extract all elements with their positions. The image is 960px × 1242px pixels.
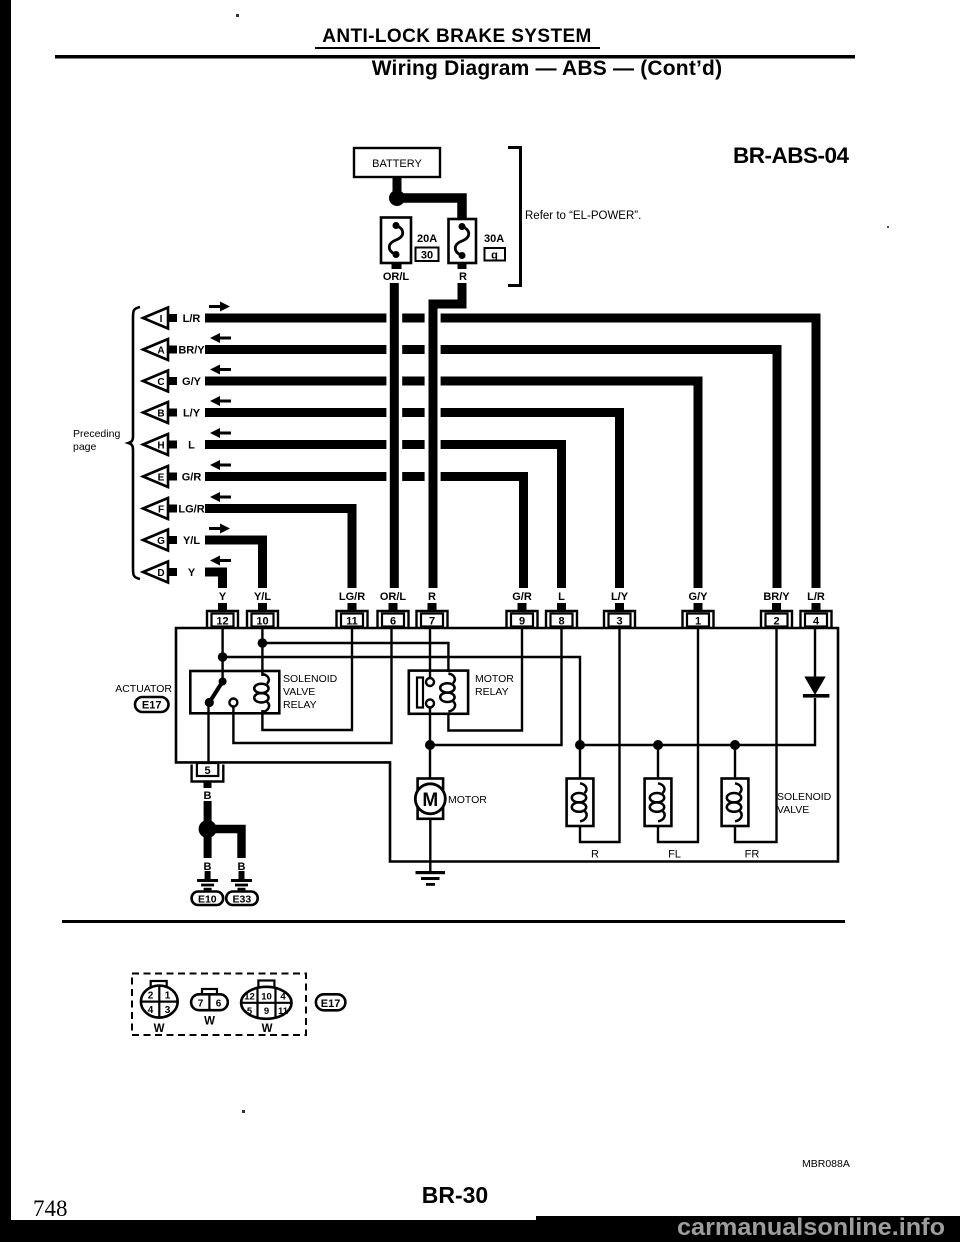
motor relay box bbox=[409, 671, 468, 714]
svg-text:Refer to “EL-POWER”.: Refer to “EL-POWER”. bbox=[525, 210, 641, 222]
wire G/Y bbox=[205, 381, 698, 588]
wire FR solenoid coil feed bbox=[734, 745, 736, 779]
connector triangle C (preceding page), wire G/Y bbox=[143, 371, 202, 392]
svg-text:G/R: G/R bbox=[182, 472, 202, 484]
svg-text:G: G bbox=[157, 536, 165, 547]
connector terminal 3 bbox=[604, 603, 635, 628]
svg-text:Y: Y bbox=[188, 567, 196, 579]
SVR switch bbox=[205, 678, 227, 708]
wire motor node to connector 8 bbox=[430, 627, 562, 745]
connector terminal 11 bbox=[337, 603, 368, 628]
svg-text:11: 11 bbox=[278, 1006, 289, 1017]
svg-text:E33: E33 bbox=[233, 894, 252, 906]
connector triangle A (preceding page), wire BR/Y bbox=[143, 339, 205, 360]
svg-text:g: g bbox=[491, 250, 498, 262]
E17 oval legend bbox=[316, 994, 346, 1010]
wire node 10-branch to motor relay coil bbox=[262, 643, 448, 672]
svg-text:ACTUATOR: ACTUATOR bbox=[115, 683, 172, 695]
svg-text:5: 5 bbox=[247, 1006, 253, 1017]
svg-text:7: 7 bbox=[198, 999, 204, 1010]
svg-text:VALVE: VALVE bbox=[777, 804, 809, 816]
connector triangle G (preceding page), wire Y/L bbox=[143, 530, 200, 551]
svg-text:A: A bbox=[157, 346, 164, 357]
svg-text:7: 7 bbox=[429, 616, 435, 628]
motor relay coil bbox=[440, 674, 455, 712]
wire motor relay coil bottom to connector 9 bbox=[448, 627, 522, 731]
svg-text:MBR088A: MBR088A bbox=[802, 1158, 850, 1170]
wire B down to E10 bbox=[204, 829, 212, 858]
svg-text:R: R bbox=[591, 849, 599, 861]
svg-text:D: D bbox=[157, 568, 164, 579]
svg-text:E: E bbox=[158, 473, 165, 484]
svg-text:OR/L: OR/L bbox=[383, 271, 410, 283]
svg-text:9: 9 bbox=[519, 616, 525, 628]
wire motor relay contact to motor, junction bbox=[429, 707, 431, 779]
svg-text:Preceding: Preceding bbox=[73, 428, 120, 440]
svg-text:3: 3 bbox=[165, 1005, 171, 1016]
svg-text:6: 6 bbox=[390, 616, 396, 628]
connector face E17-A (pins 2,1,4,3) bbox=[141, 981, 178, 1018]
fuse stubs bbox=[392, 263, 402, 269]
arrow G/Y bbox=[210, 365, 231, 375]
svg-text:page: page bbox=[73, 441, 97, 453]
wire G/R bbox=[205, 477, 524, 589]
svg-text:FL: FL bbox=[668, 849, 681, 861]
wire 7 to motor relay contact bbox=[429, 627, 431, 678]
svg-text:VALVE: VALVE bbox=[283, 686, 315, 698]
wire L/R bbox=[205, 318, 816, 588]
scan specks bbox=[236, 14, 239, 17]
connector terminal 9 bbox=[507, 603, 538, 628]
wire L bbox=[205, 445, 562, 589]
svg-text:Y: Y bbox=[219, 591, 227, 603]
wire B down from 5 bbox=[204, 801, 212, 822]
wire motor to ground bbox=[429, 819, 431, 871]
svg-text:SOLENOID: SOLENOID bbox=[777, 791, 832, 803]
arrow Y/L bbox=[209, 524, 230, 534]
connector triangle F (preceding page), wire LG/R bbox=[143, 498, 205, 519]
svg-text:1: 1 bbox=[165, 991, 171, 1002]
svg-text:B: B bbox=[157, 409, 164, 420]
svg-text:G/Y: G/Y bbox=[182, 376, 202, 388]
svg-text:I: I bbox=[160, 314, 163, 325]
svg-text:W: W bbox=[154, 1023, 165, 1035]
svg-text:RELAY: RELAY bbox=[283, 699, 317, 711]
legend dashed box bbox=[132, 974, 306, 1036]
connector terminal 12 bbox=[207, 603, 238, 628]
svg-text:BATTERY: BATTERY bbox=[372, 158, 422, 170]
ground under motor bbox=[416, 871, 446, 886]
connector triangle H (preceding page), wire L bbox=[143, 434, 195, 455]
svg-text:L: L bbox=[188, 440, 195, 452]
svg-text:30A: 30A bbox=[484, 233, 504, 245]
svg-text:B: B bbox=[204, 790, 212, 802]
svg-text:6: 6 bbox=[216, 999, 222, 1010]
svg-text:E17: E17 bbox=[142, 700, 162, 712]
wire Y bbox=[205, 572, 223, 588]
E17 oval bbox=[135, 697, 169, 712]
svg-text:9: 9 bbox=[264, 1006, 269, 1017]
wire battery to fuse2 bbox=[397, 198, 462, 219]
svg-text:30: 30 bbox=[421, 250, 433, 262]
svg-text:RELAY: RELAY bbox=[475, 686, 509, 698]
connector face E17-C (pins 12,10,4,5,9,11) bbox=[241, 981, 291, 1019]
svg-text:748: 748 bbox=[33, 1196, 68, 1221]
wire Y/L bbox=[205, 540, 263, 588]
connector terminal 2 bbox=[761, 603, 792, 628]
preceding page brace bbox=[129, 307, 141, 579]
wire L/Y bbox=[205, 413, 620, 589]
wire SVR coil bottom to connector 11 bbox=[262, 627, 352, 730]
svg-text:12: 12 bbox=[244, 992, 255, 1003]
svg-text:12: 12 bbox=[216, 616, 228, 628]
solenoid valve relay box bbox=[190, 671, 279, 713]
label 30 box bbox=[416, 248, 439, 262]
svg-text:Y/L: Y/L bbox=[183, 535, 200, 547]
svg-text:4: 4 bbox=[813, 616, 820, 628]
arrow L/Y bbox=[210, 396, 231, 406]
connector terminal 6 bbox=[378, 603, 409, 628]
motor relay contact bar bbox=[417, 678, 423, 708]
arrow LG/R bbox=[210, 492, 231, 502]
svg-text:10: 10 bbox=[256, 616, 268, 628]
connector terminal 4 bbox=[801, 603, 832, 628]
connector terminal 10 bbox=[247, 603, 278, 628]
svg-text:10: 10 bbox=[261, 992, 272, 1003]
svg-text:BR-ABS-04: BR-ABS-04 bbox=[733, 143, 850, 168]
connector face E17-B (pins 7,6) bbox=[191, 989, 228, 1010]
wire R coil return to connector 3 bbox=[580, 627, 620, 842]
wire R vertical from fuse with jog bbox=[433, 283, 462, 588]
svg-text:8: 8 bbox=[558, 616, 564, 628]
wire LG/R bbox=[205, 509, 352, 589]
label g box bbox=[485, 248, 506, 261]
thick header rule bbox=[55, 55, 855, 59]
svg-text:BR/Y: BR/Y bbox=[178, 345, 205, 357]
solenoid coil R bbox=[567, 779, 594, 827]
svg-text:G/Y: G/Y bbox=[689, 591, 709, 603]
svg-text:L/R: L/R bbox=[183, 313, 201, 325]
svg-text:BR/Y: BR/Y bbox=[763, 591, 790, 603]
wire diode from connector 4 bbox=[814, 627, 816, 678]
wire SVR switch to connector 5 bbox=[207, 703, 209, 763]
wire 10 to relay coil bbox=[261, 627, 263, 676]
arrow Y bbox=[210, 556, 231, 566]
section separator rule bbox=[62, 920, 845, 923]
wire node 12-branch to solenoid feed bbox=[223, 657, 580, 745]
wire OR/L vertical from fuse bbox=[390, 283, 399, 588]
crossover gaps at OR/L and R verticals bbox=[386, 313, 402, 323]
svg-text:MOTOR: MOTOR bbox=[448, 794, 487, 806]
svg-text:L/Y: L/Y bbox=[611, 591, 629, 603]
svg-text:2: 2 bbox=[773, 616, 779, 628]
svg-text:E17: E17 bbox=[321, 998, 341, 1010]
svg-text:FR: FR bbox=[745, 849, 760, 861]
wire SVR fixed contact to connector 6 bbox=[233, 627, 391, 743]
battery wire bbox=[393, 177, 402, 197]
connector terminal 5 bbox=[192, 763, 224, 788]
arrow L bbox=[210, 428, 231, 438]
connector terminal 1 bbox=[683, 603, 714, 628]
diode CR (to L/R) bbox=[803, 677, 830, 698]
connector triangle D (preceding page), wire Y bbox=[143, 562, 196, 583]
svg-text:carmanualsonline.info: carmanualsonline.info bbox=[677, 1214, 945, 1241]
connector terminal 7 bbox=[417, 603, 448, 628]
svg-text:4: 4 bbox=[280, 992, 286, 1003]
svg-text:SOLENOID: SOLENOID bbox=[283, 673, 338, 685]
connector triangle E (preceding page), wire G/R bbox=[143, 466, 201, 487]
wire 12 to relay switch bbox=[221, 627, 223, 681]
junction B bbox=[199, 820, 217, 838]
svg-text:BR-30: BR-30 bbox=[422, 1182, 488, 1208]
solenoid coil FR bbox=[722, 779, 749, 827]
svg-text:LG/R: LG/R bbox=[178, 504, 204, 516]
svg-text:11: 11 bbox=[346, 616, 358, 628]
actuator big box outline bbox=[176, 628, 838, 862]
wire FR coil return to connector 2 bbox=[735, 627, 777, 842]
fuse 30A box bbox=[449, 219, 477, 263]
svg-text:L/R: L/R bbox=[807, 591, 825, 603]
svg-text:R: R bbox=[459, 271, 467, 283]
junction dot battery bbox=[389, 190, 405, 206]
bottom black scan bar bbox=[0, 1220, 960, 1242]
svg-text:Wiring Diagram — ABS — (Cont’d: Wiring Diagram — ABS — (Cont’d) bbox=[372, 57, 723, 80]
svg-text:L: L bbox=[558, 591, 565, 603]
svg-text:MOTOR: MOTOR bbox=[475, 673, 514, 685]
ground E33 bbox=[231, 871, 252, 890]
arrow G/R bbox=[210, 460, 231, 470]
svg-text:R: R bbox=[428, 591, 436, 603]
wire solenoid feed bus bbox=[580, 698, 815, 745]
fuse 20A box bbox=[381, 218, 411, 264]
svg-text:Y/L: Y/L bbox=[254, 591, 271, 603]
motor M1 bbox=[415, 779, 445, 819]
svg-text:E10: E10 bbox=[198, 894, 217, 906]
svg-text:F: F bbox=[158, 505, 164, 516]
svg-text:OR/L: OR/L bbox=[380, 591, 407, 603]
solenoid coil FL bbox=[645, 779, 672, 827]
svg-text:3: 3 bbox=[616, 616, 622, 628]
ground E10 bbox=[197, 871, 218, 890]
wire BR/Y bbox=[205, 350, 777, 589]
left black scan bar bbox=[0, 0, 11, 1242]
svg-text:M: M bbox=[422, 790, 438, 811]
connector triangle I (preceding page), wire L/R bbox=[143, 308, 200, 329]
wire FL solenoid coil feed bbox=[657, 745, 659, 779]
svg-text:W: W bbox=[204, 1016, 215, 1028]
refer bracket bbox=[508, 148, 521, 286]
svg-text:H: H bbox=[157, 441, 164, 452]
svg-text:C: C bbox=[157, 377, 164, 388]
svg-text:ANTI-LOCK BRAKE SYSTEM: ANTI-LOCK BRAKE SYSTEM bbox=[322, 26, 592, 47]
SVR fixed contact bbox=[229, 699, 237, 707]
connector terminal 8 bbox=[546, 603, 577, 628]
connector triangle B (preceding page), wire L/Y bbox=[143, 402, 201, 423]
svg-text:1: 1 bbox=[695, 616, 701, 628]
battery box bbox=[354, 148, 440, 177]
SVR coil bbox=[254, 674, 269, 712]
svg-text:L/Y: L/Y bbox=[183, 408, 201, 420]
wire R solenoid coil feed bbox=[579, 745, 581, 779]
svg-text:5: 5 bbox=[204, 765, 210, 777]
arrow L/R bbox=[209, 302, 230, 312]
svg-text:LG/R: LG/R bbox=[339, 591, 365, 603]
svg-text:2: 2 bbox=[148, 991, 154, 1002]
svg-text:20A: 20A bbox=[417, 233, 437, 245]
svg-text:4: 4 bbox=[148, 1005, 154, 1016]
svg-text:W: W bbox=[262, 1023, 273, 1035]
svg-text:G/R: G/R bbox=[512, 591, 532, 603]
arrow BR/Y bbox=[210, 333, 231, 343]
wire FL coil return to connector 1 bbox=[658, 627, 698, 842]
wire B branch to E33 bbox=[208, 829, 242, 858]
